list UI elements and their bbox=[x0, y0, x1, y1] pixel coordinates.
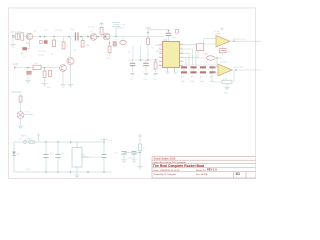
svg-text:100n: 100n bbox=[128, 157, 132, 159]
wire into opamp2 bbox=[212, 58, 218, 73]
ground bbox=[25, 81, 30, 84]
ground bbox=[74, 172, 79, 178]
wire feedback bbox=[212, 70, 234, 82]
svg-text:SPK OUT: SPK OUT bbox=[234, 67, 244, 69]
ground bbox=[131, 160, 136, 163]
wire crystal legs bbox=[133, 46, 141, 61]
junction dots bbox=[27, 67, 45, 69]
title block bbox=[152, 157, 256, 179]
speaker coupling LS bbox=[115, 37, 126, 45]
power battery bars bbox=[112, 23, 120, 37]
svg-text:Date: 12/05/2016 21:14:55: Date: 12/05/2016 21:14:55 bbox=[154, 169, 181, 172]
inductor L1 bbox=[198, 54, 222, 60]
svg-text:GND: GND bbox=[224, 93, 229, 95]
svg-text:10: 10 bbox=[181, 52, 183, 54]
power VCC bbox=[221, 28, 224, 31]
IC U1 bbox=[163, 39, 180, 68]
transistor Q4 bbox=[60, 65, 67, 72]
svg-text:4: 4 bbox=[160, 56, 161, 58]
ground bbox=[166, 72, 178, 73]
op-amp U2B bbox=[218, 62, 232, 76]
ground bbox=[143, 73, 148, 76]
capacitor C12 bbox=[220, 46, 232, 56]
capacitor C15 bbox=[101, 140, 106, 172]
ground bbox=[60, 85, 65, 88]
junction dots bus bbox=[39, 36, 106, 38]
svg-text:10u: 10u bbox=[115, 152, 118, 154]
page background bbox=[0, 0, 267, 189]
diode D1 bbox=[12, 152, 20, 156]
resistor R3 bbox=[53, 37, 56, 47]
resistor R10 bbox=[154, 60, 157, 73]
svg-text:R5 47k: R5 47k bbox=[56, 30, 64, 32]
pin 1-6 left bbox=[159, 45, 163, 66]
resistor R14 bbox=[210, 66, 216, 73]
wire to decoupling cap bbox=[148, 30, 169, 33]
transistor Q2 bbox=[90, 34, 97, 41]
svg-text:100n: 100n bbox=[46, 87, 50, 89]
ground bbox=[121, 160, 126, 163]
power VCC right bbox=[101, 138, 113, 142]
resistor R16 bbox=[43, 68, 51, 84]
svg-text:LM386: LM386 bbox=[215, 33, 222, 35]
svg-text:5: 5 bbox=[160, 60, 161, 62]
svg-text:100R: 100R bbox=[106, 58, 111, 60]
capacitor C9 bbox=[143, 60, 149, 73]
regulator VR1 bbox=[72, 142, 88, 172]
svg-text:AUDIO: AUDIO bbox=[118, 27, 125, 30]
svg-text:LED: LED bbox=[200, 81, 204, 83]
frame border bbox=[9, 8, 256, 179]
svg-text:OSC1: OSC1 bbox=[156, 45, 162, 47]
svg-text:LED: LED bbox=[181, 81, 185, 83]
svg-text:REGULATED SUPPLY: REGULATED SUPPLY bbox=[81, 156, 103, 159]
ground bbox=[10, 45, 15, 48]
capacitor C17 bbox=[128, 151, 137, 159]
node GAIN bbox=[13, 63, 19, 68]
svg-text:SPKR 8R: SPKR 8R bbox=[12, 92, 22, 94]
wire feedback ground stub bbox=[226, 84, 228, 87]
capacitor C13 bbox=[43, 142, 54, 172]
svg-text:IC2A: IC2A bbox=[215, 30, 220, 33]
svg-text:BATT+: BATT+ bbox=[21, 135, 28, 138]
capacitor C14 bbox=[55, 142, 65, 172]
wire speaker tap bbox=[24, 112, 33, 115]
svg-text:Sheet: 1/1: Sheet: 1/1 bbox=[196, 169, 207, 172]
ground bbox=[68, 85, 73, 88]
resistor R9 bbox=[147, 38, 156, 60]
power rail tick bbox=[145, 26, 151, 28]
wire bank top bbox=[181, 64, 216, 66]
svg-text:REV 1.0: REV 1.0 bbox=[207, 168, 217, 172]
pin numbers bbox=[160, 43, 183, 65]
net labels ground row bbox=[130, 79, 156, 81]
wire Q4 emitter bbox=[62, 71, 64, 84]
wire speaker ground bbox=[20, 118, 22, 125]
capacitor C7 bbox=[166, 30, 178, 42]
svg-text:R7 22k: R7 22k bbox=[88, 27, 94, 29]
svg-text:10u: 10u bbox=[21, 53, 24, 55]
resistor R20 bbox=[139, 144, 145, 166]
ground bbox=[130, 73, 135, 76]
resistor R19 bbox=[222, 78, 232, 83]
wire IC left bus bbox=[128, 59, 159, 61]
capacitor C10 bbox=[27, 71, 32, 80]
svg-text:VCC 9V: VCC 9V bbox=[118, 24, 126, 26]
svg-text:LED: LED bbox=[191, 81, 195, 83]
wire opamp1 inputs bbox=[198, 39, 216, 59]
op-amp U2A bbox=[215, 30, 231, 47]
svg-text:OSC2: OSC2 bbox=[156, 51, 162, 53]
resistor R21 bbox=[106, 40, 111, 60]
wire V+ rail bbox=[14, 141, 104, 143]
resistor R11 bbox=[181, 66, 187, 73]
resistor R7 bbox=[100, 24, 103, 37]
svg-text:10k: 10k bbox=[153, 79, 156, 81]
wire opamp1 output bbox=[230, 38, 261, 42]
wire feed to IC bbox=[147, 29, 149, 39]
svg-text:IC1: IC1 bbox=[164, 39, 168, 42]
capacitor C16 bbox=[115, 151, 127, 159]
capacitor C2 bbox=[21, 40, 30, 59]
connector X1 bbox=[24, 141, 35, 144]
svg-text:9: 9 bbox=[181, 56, 182, 58]
svg-text:GAIN: GAIN bbox=[13, 63, 19, 66]
ground bbox=[137, 167, 142, 170]
resistor R15 bbox=[33, 65, 41, 69]
resistor R17 bbox=[19, 96, 22, 102]
svg-text:100k: 100k bbox=[223, 78, 227, 80]
svg-text:Doc: RCRB: Doc: RCRB bbox=[196, 174, 208, 176]
pin 7-12 right bbox=[180, 45, 184, 66]
svg-text:7: 7 bbox=[181, 64, 182, 66]
svg-text:1k: 1k bbox=[143, 147, 145, 149]
ground bbox=[224, 87, 229, 90]
power VCC cluster bbox=[138, 134, 142, 144]
resistor R6 bbox=[81, 37, 84, 48]
wire Q5 emitter bbox=[70, 65, 72, 84]
svg-text:Shack Nation 2016: Shack Nation 2016 bbox=[154, 157, 176, 161]
capacitor C6 bbox=[113, 42, 116, 47]
svg-text:GND: GND bbox=[26, 169, 31, 171]
wire cluster bus bbox=[124, 152, 141, 153]
wire gain bus bbox=[14, 67, 60, 69]
capacitor C11 bbox=[46, 71, 52, 89]
resistor R1 bbox=[21, 33, 24, 40]
capacitor C3 bbox=[75, 33, 79, 41]
svg-text:12: 12 bbox=[181, 43, 183, 45]
wire mic ground stub bbox=[12, 38, 14, 44]
wire main audio bus bbox=[13, 36, 164, 38]
svg-text:1/1: 1/1 bbox=[236, 172, 241, 176]
svg-text:100n: 100n bbox=[172, 37, 178, 39]
ground bbox=[42, 84, 47, 87]
wire opamp2 output bbox=[232, 67, 261, 71]
wire IC output fan bbox=[183, 45, 196, 65]
wire battery left bbox=[13, 142, 15, 172]
net labels top bbox=[118, 24, 126, 29]
transistor Q5 bbox=[67, 57, 74, 64]
wire GND rail bbox=[14, 171, 112, 173]
resistor R12 bbox=[191, 66, 197, 73]
svg-text:AUDIO OUT 1: AUDIO OUT 1 bbox=[233, 38, 248, 41]
ground bbox=[153, 73, 158, 76]
power VCC bbox=[100, 22, 104, 24]
transistor Q6 bbox=[103, 33, 110, 40]
speaker LS1 bbox=[17, 112, 24, 119]
pin bottom stubs bbox=[168, 68, 175, 72]
value labels top row bbox=[33, 29, 94, 33]
wire Q5 collector bbox=[70, 37, 72, 58]
resistor R18 bbox=[197, 44, 204, 51]
svg-text:11: 11 bbox=[181, 47, 183, 49]
svg-text:The Real Complete Rocket Boat: The Real Complete Rocket Boat bbox=[153, 164, 205, 168]
svg-text:LM386: LM386 bbox=[220, 62, 227, 64]
svg-text:8: 8 bbox=[181, 60, 182, 62]
svg-text:R5 4k7: R5 4k7 bbox=[38, 55, 45, 57]
junction dots bbox=[140, 59, 157, 61]
svg-text:C5 100n: C5 100n bbox=[38, 51, 46, 53]
power tick input bbox=[37, 134, 40, 143]
svg-text:Drawn By: R. Complete: Drawn By: R. Complete bbox=[154, 173, 178, 176]
resistor R4 bbox=[62, 37, 69, 50]
capacitor C5 bbox=[38, 40, 48, 56]
ground bbox=[18, 126, 23, 129]
junction dots rails bbox=[45, 141, 105, 173]
value labels bank bbox=[181, 77, 214, 83]
capacitor C18 bbox=[176, 30, 179, 34]
microphone M1 bbox=[16, 33, 19, 40]
wire fan cross link bbox=[183, 56, 198, 58]
svg-text:2: 2 bbox=[160, 47, 161, 49]
node MIC bbox=[11, 31, 22, 38]
wire speaker feed bbox=[20, 94, 22, 112]
svg-text:VCC: VCC bbox=[108, 140, 113, 142]
resistor R13 bbox=[200, 66, 206, 73]
net labels supply input bbox=[19, 135, 33, 141]
svg-text:1k: 1k bbox=[51, 54, 53, 56]
transistor Q1 bbox=[26, 33, 33, 40]
node junction bbox=[147, 32, 149, 34]
svg-text:6: 6 bbox=[160, 64, 161, 66]
capacitor C8 bbox=[130, 60, 136, 73]
